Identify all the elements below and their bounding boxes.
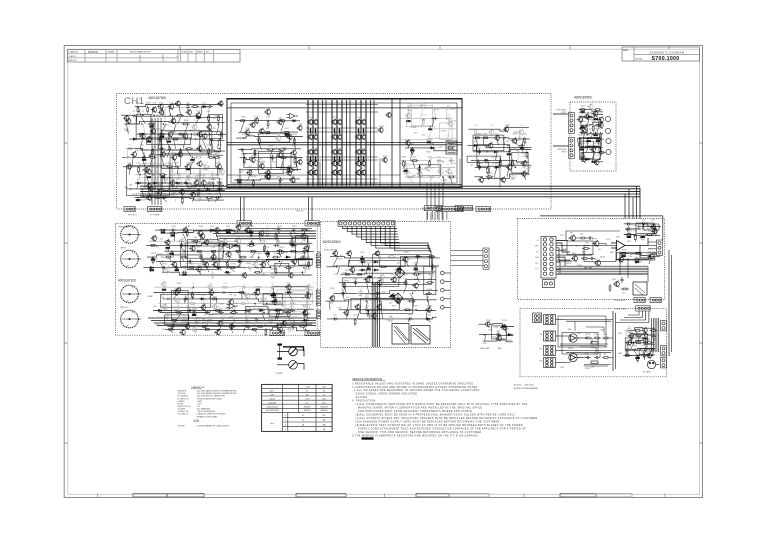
transistor Q85 <box>185 183 191 190</box>
resistor R122 <box>162 292 164 300</box>
resistor R149 <box>299 325 307 327</box>
transistor Q194 <box>332 250 338 257</box>
capacitor C17 <box>271 155 274 161</box>
wire elbow <box>390 226 430 252</box>
emitter resistor bar <box>310 156 311 161</box>
resistor R81 <box>583 146 591 148</box>
wire <box>200 272 201 275</box>
resistor R86 <box>159 229 167 231</box>
wire <box>201 107 203 116</box>
resistor R28 <box>198 174 206 176</box>
transistor Q219 <box>617 256 623 263</box>
wire <box>334 291 438 294</box>
capacitor C42 <box>271 284 274 290</box>
power stage inner outline <box>231 103 457 183</box>
wire loop <box>162 130 212 153</box>
wire <box>421 119 424 127</box>
svg-text:485: 485 <box>323 420 326 422</box>
wire elbow <box>347 226 397 231</box>
svg-text:VR93: VR93 <box>634 225 640 227</box>
wire loop <box>162 178 219 192</box>
node J31 <box>588 138 589 139</box>
resistor R1 <box>137 106 139 114</box>
wire input <box>553 145 569 147</box>
wire <box>556 259 570 261</box>
op-amp U1 <box>287 113 299 118</box>
wire loop <box>263 261 306 273</box>
resistor R71 <box>523 166 531 168</box>
wire <box>419 165 421 188</box>
wire <box>294 138 297 150</box>
svg-text:VR16: VR16 <box>257 253 263 255</box>
wire <box>412 161 415 169</box>
wire <box>448 127 450 140</box>
wire <box>253 329 257 333</box>
connector CN32 <box>305 221 319 226</box>
connector stub <box>316 300 320 302</box>
svg-text:INPUT: INPUT <box>561 152 566 154</box>
node J22 <box>430 126 431 127</box>
diode D42 <box>360 261 367 264</box>
wire <box>194 124 195 134</box>
transistor Q92 <box>290 149 296 156</box>
wire <box>580 152 582 159</box>
transistor Q69 <box>125 164 131 171</box>
transistor Q169 <box>285 284 291 291</box>
transistor Q76 <box>194 174 200 181</box>
diode D32 <box>286 291 293 294</box>
wire <box>278 230 279 233</box>
connector stub <box>316 290 320 292</box>
wire <box>505 324 506 335</box>
capacitor C53 <box>220 319 226 322</box>
IC body <box>226 232 230 234</box>
diode D36 <box>258 309 265 312</box>
wire <box>236 136 303 138</box>
resistor R137 <box>166 312 168 320</box>
IC body <box>427 141 431 143</box>
wire bus vertical <box>375 282 377 347</box>
wire <box>270 158 272 170</box>
svg-text:24BC/35: 24BC/35 <box>304 410 311 412</box>
transistor Q67 <box>171 154 177 161</box>
svg-text:VR83: VR83 <box>249 257 255 259</box>
wire <box>430 140 432 148</box>
transistor Q118 <box>514 146 520 153</box>
transistor Q88 <box>190 191 196 198</box>
svg-text:MANUFACTURER. AFTER A CORPORAT: MANUFACTURER. AFTER A CORPORATION ARE IN… <box>358 407 482 410</box>
transistor Q111 <box>416 171 422 178</box>
svg-text:- ONLY A TR-AX ALONE: - ONLY A TR-AX ALONE <box>197 410 216 413</box>
capacitor C73 <box>589 257 595 260</box>
wire <box>124 121 224 124</box>
transistor Q130 <box>579 125 585 132</box>
resistor R63 <box>473 137 481 139</box>
capacitor C3 <box>220 131 223 137</box>
wire bus vertical <box>160 118 162 205</box>
resistor R59 <box>429 160 431 168</box>
transistor Q35 <box>249 157 255 163</box>
IC body <box>367 268 371 270</box>
resistor R54 <box>425 139 433 141</box>
transistor Q46 <box>168 103 174 110</box>
svg-text:^: ^ <box>162 56 163 59</box>
resistor R69 <box>511 159 513 167</box>
wire <box>260 268 263 273</box>
svg-text:UNIT: UNIT <box>189 52 193 54</box>
wire <box>270 287 273 292</box>
diode D43 <box>360 269 367 272</box>
svg-text:VR54: VR54 <box>190 162 196 164</box>
connector stub <box>316 257 320 259</box>
wire <box>196 320 197 326</box>
jack circle <box>605 116 610 121</box>
node J33 <box>293 229 294 230</box>
wire <box>162 55 164 62</box>
transistor Q53 <box>125 118 131 125</box>
wire <box>145 167 147 175</box>
resistor R60 <box>407 176 415 178</box>
node J52 <box>263 312 264 313</box>
pad <box>441 271 445 275</box>
capacitor C22 <box>428 175 434 178</box>
transistor Q42 <box>296 125 302 131</box>
wire <box>211 139 213 149</box>
wire <box>178 175 182 183</box>
IC body <box>390 295 394 297</box>
svg-text:VR28: VR28 <box>338 258 344 260</box>
pad <box>441 297 445 301</box>
IC body <box>237 182 241 184</box>
wire <box>126 149 128 158</box>
node J49 <box>254 303 255 304</box>
wire <box>167 320 312 322</box>
wire loop <box>185 264 206 270</box>
wire loop <box>342 278 399 287</box>
IC body <box>520 147 524 149</box>
title table column line <box>204 50 206 63</box>
wire <box>167 324 312 326</box>
resistor R43 <box>267 149 275 151</box>
IC body <box>192 314 196 316</box>
connector CN22 <box>569 138 575 159</box>
transistor Q174 <box>270 292 276 299</box>
transistor Q29 <box>360 160 366 166</box>
resistor R135 <box>244 310 252 312</box>
svg-text:VR58: VR58 <box>578 113 584 115</box>
wire bus horizontal <box>140 188 640 190</box>
IC body <box>170 253 174 255</box>
wire output link <box>325 100 327 186</box>
transistor Q93 <box>256 157 262 164</box>
wire loop <box>136 114 151 138</box>
capacitor C32 <box>273 244 279 247</box>
wire <box>426 183 428 207</box>
diode D5 <box>135 182 142 185</box>
svg-text:- ALL 1/4W CARBON UNLESS OTHER: - ALL 1/4W CARBON UNLESS OTHERWISE NOTED <box>197 390 238 393</box>
wire <box>511 177 514 180</box>
svg-text:VR83: VR83 <box>203 170 209 172</box>
svg-text:VR58: VR58 <box>515 140 521 142</box>
node J50 <box>266 303 267 304</box>
wire <box>641 235 642 237</box>
transistor Q19 <box>336 160 342 166</box>
wire <box>164 230 165 233</box>
transistor Q223 <box>571 255 578 262</box>
resistor R155 <box>388 256 396 258</box>
transistor Q143 <box>151 235 157 242</box>
wire <box>404 283 408 294</box>
svg-text:4005187850: 4005187850 <box>574 96 592 100</box>
resistor R20 <box>194 156 202 158</box>
transistor Q23 <box>355 149 361 155</box>
transistor Q71 <box>184 164 190 171</box>
wire stub <box>444 272 450 274</box>
capacitor C10 <box>178 172 181 178</box>
svg-text:VR14: VR14 <box>164 125 170 127</box>
resistor R157 <box>379 266 387 268</box>
IC body <box>502 326 506 328</box>
resistor R29 <box>207 182 215 184</box>
transistor Q30 <box>360 169 366 175</box>
resistor R85 <box>590 158 598 160</box>
wire <box>473 150 531 152</box>
wire <box>239 169 301 171</box>
wire <box>169 257 172 261</box>
resistor R153 <box>265 328 267 336</box>
capacitor C12 <box>184 180 187 186</box>
connector stub <box>316 254 320 256</box>
resistor R130 <box>188 303 196 305</box>
resistor R105 <box>289 250 297 252</box>
wire <box>473 138 530 139</box>
node J9 <box>209 133 210 134</box>
capacitor C34 <box>199 254 202 260</box>
IC body <box>586 140 590 142</box>
transistor Q105 <box>404 140 410 147</box>
node J35 <box>290 232 291 233</box>
wire grid link <box>306 127 378 129</box>
wire loop <box>424 266 436 294</box>
wire output column <box>317 100 319 186</box>
wire <box>366 267 367 274</box>
resistor R112 <box>226 260 228 268</box>
diode D6 <box>152 182 159 185</box>
resistor R8 <box>182 123 190 125</box>
capacitor C15 <box>215 196 221 199</box>
capacitor C28 <box>170 229 176 232</box>
wire <box>518 129 520 138</box>
transistor Q77 <box>218 168 224 175</box>
IC body <box>161 176 165 178</box>
svg-text:VR59: VR59 <box>405 171 411 173</box>
IC body <box>196 117 200 119</box>
transistor Q211 <box>354 304 360 311</box>
wire bus drop <box>624 194 626 219</box>
wire <box>556 243 572 274</box>
wire <box>206 320 208 326</box>
wire <box>497 138 499 146</box>
resistor R169 <box>620 253 628 255</box>
wire <box>215 198 219 202</box>
wire <box>431 267 433 274</box>
wire <box>616 257 660 260</box>
transistor Q148 <box>300 235 306 242</box>
wire <box>649 259 651 264</box>
wire <box>177 167 178 175</box>
wire <box>254 150 256 158</box>
emitter resistor bar <box>339 129 340 134</box>
node J4 <box>170 115 171 116</box>
wire <box>153 309 314 310</box>
svg-text:- RATED IN CONVENTION CHP. ATP: - RATED IN CONVENTION CHP. ATPL <box>197 413 226 416</box>
svg-text:VR75: VR75 <box>231 264 237 266</box>
wire <box>327 317 437 319</box>
svg-text:+55: +55 <box>305 403 308 405</box>
wire loop <box>361 298 413 313</box>
wire <box>406 127 458 129</box>
resistor R34 <box>206 197 214 199</box>
transistor Q12 <box>331 134 337 140</box>
wire <box>241 121 245 133</box>
wire <box>523 160 526 167</box>
wire <box>451 265 484 267</box>
connector stub <box>316 296 320 298</box>
node J57 <box>336 266 337 267</box>
wire <box>580 117 583 126</box>
transistor Q147 <box>235 238 241 245</box>
transistor Q127 <box>583 113 589 120</box>
transistor Q199 <box>395 267 401 274</box>
svg-text:4.5: 4.5 <box>323 395 326 397</box>
transistor Q43 <box>296 159 302 165</box>
svg-text:SHEET: SHEET <box>197 52 203 54</box>
transistor Q59 <box>196 131 202 138</box>
wire loop <box>299 258 313 265</box>
svg-text:(C)ALL CONTROL SHIELD AND INSU: (C)ALL CONTROL SHIELD AND INSULATING SPA… <box>356 417 538 420</box>
wire bus vertical <box>378 282 380 347</box>
zone tick <box>179 46 181 50</box>
diode D1 <box>201 105 208 108</box>
resistor R61 <box>448 176 456 178</box>
svg-text:CHK.BY: CHK.BY <box>69 56 76 58</box>
svg-text:39635/35: 39635/35 <box>320 410 327 412</box>
wire bus horizontal <box>140 185 640 187</box>
capacitor C27 <box>593 145 599 148</box>
transistor Q81 <box>200 180 206 187</box>
resistor R64 <box>482 137 490 139</box>
transistor Q225 <box>650 224 656 231</box>
wire <box>162 157 165 167</box>
transistor Q135 <box>197 230 203 237</box>
wire bus <box>157 325 316 327</box>
resistor R37 <box>279 120 287 122</box>
transistor Q212 <box>376 304 382 311</box>
svg-text:MODEL :: MODEL : <box>636 58 645 60</box>
transistor Q110 <box>445 168 451 175</box>
wire <box>430 183 432 207</box>
wire <box>164 175 165 183</box>
wire <box>278 251 281 257</box>
transistor Q170 <box>305 284 311 291</box>
resistor R115 <box>229 267 237 269</box>
transistor Q154 <box>225 251 231 258</box>
transistor Q90 <box>244 129 250 136</box>
wire <box>410 293 415 301</box>
resistor R103 <box>249 250 257 252</box>
wire <box>171 326 172 329</box>
diode D22 <box>209 229 216 232</box>
wire <box>165 250 314 252</box>
svg-text:AND POSITIONED AWAY FROM ADJAC: AND POSITIONED AWAY FROM ADJACENT COMPON… <box>358 410 473 413</box>
wire <box>278 241 279 245</box>
wire grid link <box>306 182 378 184</box>
node J6 <box>163 123 164 124</box>
svg-text:400S187810: 400S187810 <box>118 279 136 283</box>
wire output column <box>307 100 309 186</box>
resistor R2 <box>147 106 149 114</box>
node J5 <box>141 123 142 124</box>
wire <box>475 145 477 151</box>
wire <box>156 259 313 261</box>
transistor Q198 <box>349 267 355 274</box>
IC body <box>410 149 414 151</box>
transistor Q221 <box>569 235 576 242</box>
transistor Q181 <box>211 303 217 310</box>
resistor R58 <box>411 160 419 162</box>
resistor R123 <box>192 292 194 300</box>
node J34 <box>230 232 231 233</box>
transistor Q106 <box>444 140 450 147</box>
svg-text:VR19: VR19 <box>218 135 224 137</box>
resistor R76 <box>592 124 594 132</box>
wire <box>230 326 233 329</box>
wire <box>303 230 306 233</box>
diode D27 <box>237 260 244 263</box>
IC body <box>397 268 401 270</box>
svg-text:SCALE: SCALE <box>182 51 188 54</box>
wire <box>289 287 292 292</box>
wire <box>515 138 517 146</box>
transistor Q97 <box>264 174 270 181</box>
resistor R126 <box>165 298 173 300</box>
capacitor C29 <box>277 227 280 233</box>
wire <box>170 183 174 189</box>
wire loop <box>165 315 189 325</box>
wire <box>366 301 368 310</box>
wire <box>427 293 428 301</box>
transistor Q183 <box>200 304 206 311</box>
emitter resistor bar <box>339 156 340 161</box>
node J20 <box>137 197 138 198</box>
wire <box>196 115 201 124</box>
wire <box>339 309 436 312</box>
svg-text:3: 3 <box>285 424 286 426</box>
transistor Q196 <box>374 250 380 257</box>
wire <box>279 261 282 267</box>
wire <box>301 241 303 245</box>
svg-text:DRAWN: DRAWN <box>108 51 115 54</box>
wire <box>381 310 384 319</box>
svg-text:No.1: No.1 <box>206 52 210 54</box>
IC body <box>271 294 275 296</box>
svg-text:VR76: VR76 <box>201 295 207 297</box>
svg-text:VR45: VR45 <box>477 163 483 165</box>
wire <box>238 131 298 133</box>
resistor R121 <box>254 286 262 288</box>
wire <box>264 304 268 311</box>
svg-text:(E)DIELECTRIC TEST CONSISTING: (E)DIELECTRIC TEST CONSISTING OF 1.5KV A… <box>356 424 523 427</box>
